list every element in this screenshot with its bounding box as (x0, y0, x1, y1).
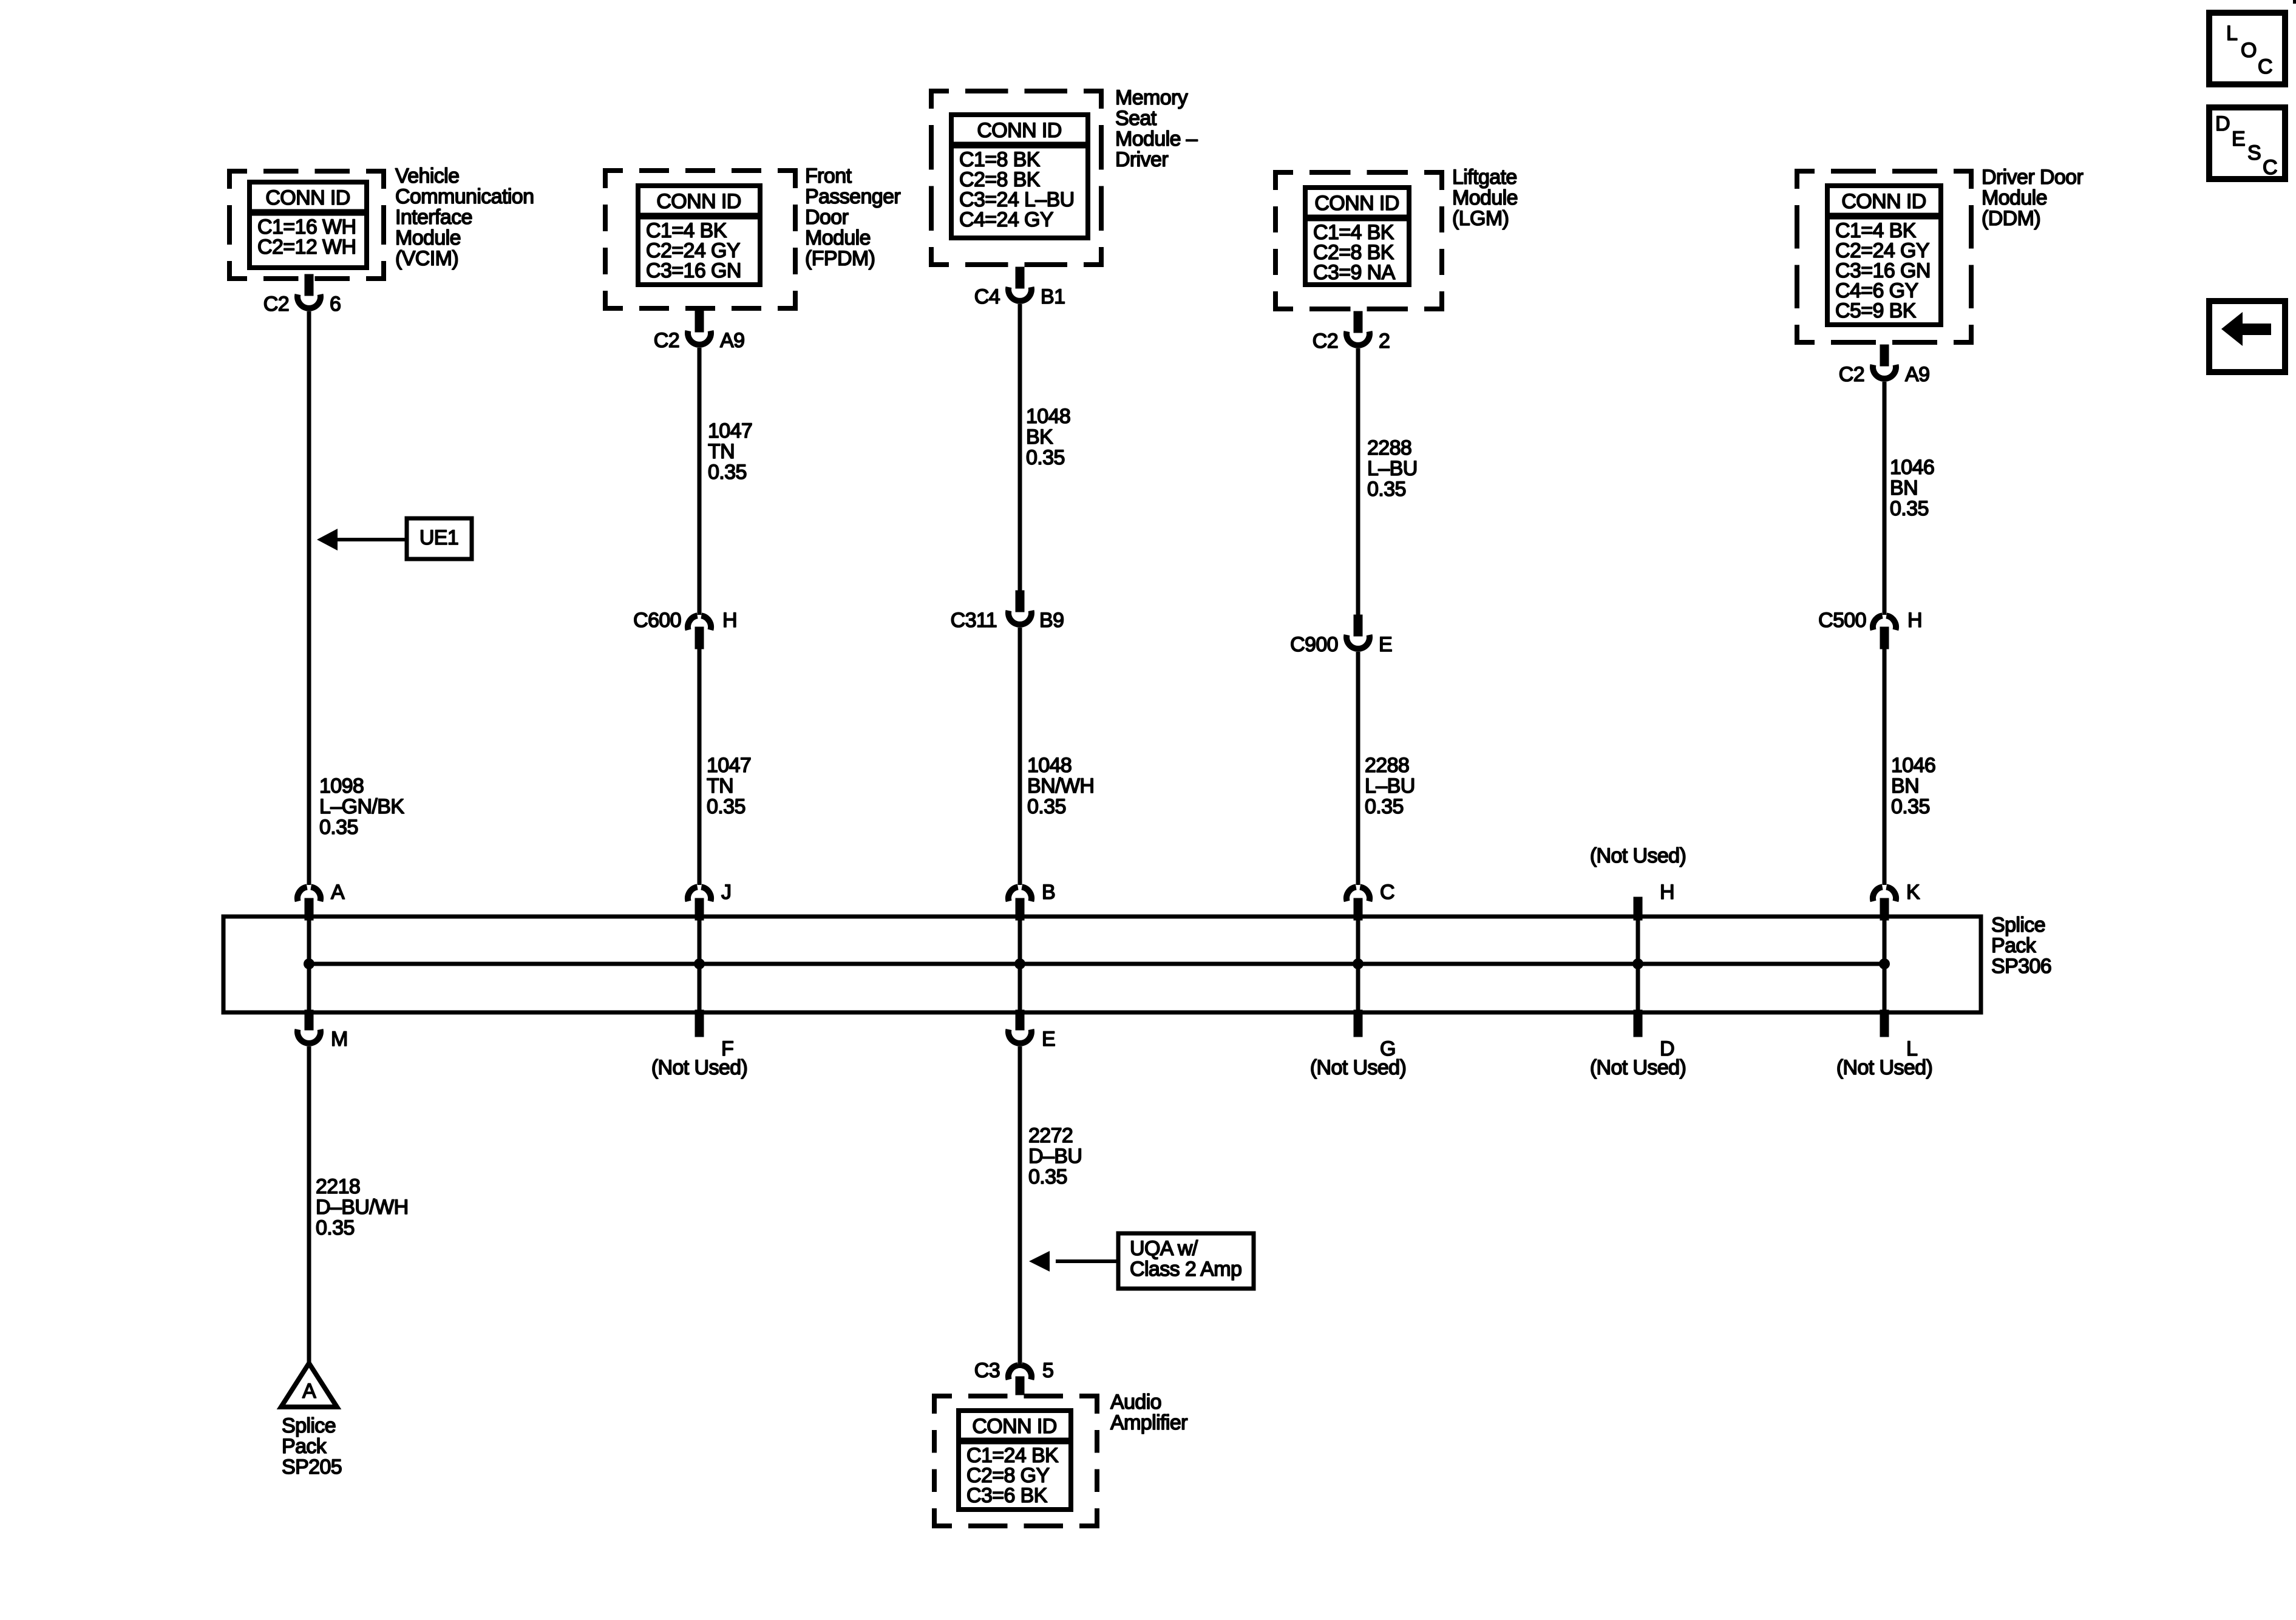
svg-text:J: J (721, 881, 731, 904)
junction node H on bus (1632, 958, 1643, 969)
in-line connector C600 pin H (633, 609, 737, 649)
svg-text:(Not Used): (Not Used) (651, 1056, 747, 1079)
svg-text:L: L (2226, 22, 2237, 45)
callout UQA w/ Class 2 Amp box with arrow (1029, 1233, 1254, 1289)
svg-text:A9: A9 (1905, 363, 1929, 386)
svg-text:CONN ID: CONN ID (656, 190, 741, 213)
LOC reference box (2209, 13, 2285, 84)
page corner mark (2293, 0, 2296, 4)
svg-text:H: H (1907, 609, 1922, 632)
connector C3 pin 5 (Audio Amplifier) (974, 1359, 1054, 1395)
wire 2272 from pin E to audio amplifier (1018, 1046, 1022, 1368)
module Audio Amplifier dashed box (932, 1394, 1099, 1528)
module Memory Seat CONN ID table (951, 115, 1088, 238)
svg-text:C: C (2258, 55, 2272, 78)
splice pack bottom pin F (695, 1010, 733, 1060)
svg-text:C900: C900 (1290, 633, 1338, 656)
back-arrow navigation box (2209, 301, 2285, 372)
svg-text:E: E (1042, 1028, 1055, 1051)
svg-text:CONN ID: CONN ID (977, 119, 1061, 142)
svg-text:CONN ID: CONN ID (972, 1415, 1056, 1438)
svg-text:2: 2 (1379, 330, 1390, 353)
svg-text:B1: B1 (1041, 285, 1065, 308)
junction node A on bus (304, 958, 314, 969)
svg-text:(Not Used): (Not Used) (1590, 1056, 1686, 1079)
svg-text:H: H (722, 609, 737, 632)
wire 2218 from pin M to splice pack SP205 (307, 1046, 311, 1364)
svg-text:M: M (331, 1028, 348, 1051)
svg-text:K: K (1906, 881, 1920, 904)
svg-text:C311: C311 (951, 609, 997, 632)
svg-text:C500: C500 (1818, 609, 1866, 632)
splice pack internal bus (309, 962, 1884, 966)
splice pack bottom pin G (1354, 1010, 1396, 1060)
splice pack bottom pin M (297, 1010, 348, 1051)
svg-text:O: O (2241, 39, 2257, 62)
module Audio Amplifier CONN ID table (959, 1411, 1071, 1510)
svg-text:B: B (1042, 881, 1055, 904)
svg-text:LiftgateModule(LGM): LiftgateModule(LGM) (1452, 166, 1518, 230)
module VCIM CONN ID table (250, 182, 367, 268)
svg-text:C2: C2 (1313, 330, 1338, 353)
splice pack top pin C (1347, 881, 1394, 920)
connector C2 pin A9 (FPDM) (654, 311, 745, 352)
splice pack top pin K (1873, 881, 1920, 920)
wire 1046 from C500 to splice pack pin K (1883, 649, 1887, 885)
svg-text:C2: C2 (263, 293, 289, 316)
wire 1047 from FPDM to C600 (698, 348, 702, 615)
svg-text:C3: C3 (974, 1359, 1000, 1382)
junction node J on bus (694, 958, 705, 969)
svg-text:E: E (2232, 127, 2245, 151)
module LGM CONN ID table (1305, 188, 1409, 285)
splice pack bottom pin L (1880, 1010, 1917, 1060)
in-line connector C900 pin E (1290, 615, 1392, 656)
svg-text:(Not Used): (Not Used) (1590, 844, 1686, 867)
svg-text:A: A (302, 1380, 316, 1403)
splice pack SP205 triangle symbol A (281, 1363, 337, 1407)
svg-text:S: S (2247, 141, 2261, 164)
svg-text:UE1: UE1 (419, 526, 458, 549)
svg-text:C1=24 BKC2=8 GYC3=6 BK: C1=24 BKC2=8 GYC3=6 BK (966, 1444, 1059, 1507)
connector C2 pin 2 (LGM) (1313, 311, 1390, 353)
svg-text:C2: C2 (1839, 363, 1864, 386)
junction node K on bus (1879, 958, 1890, 969)
module Memory Seat dashed box (929, 89, 1104, 267)
wire 2288 from LGM to C900 (1356, 348, 1360, 615)
splice pack top pin B (1008, 881, 1055, 920)
svg-text:H: H (1660, 881, 1674, 904)
svg-text:C600: C600 (633, 609, 681, 632)
splice pack bottom pin D (1634, 1010, 1674, 1060)
wire 1047 from C600 to splice pack pin J (698, 649, 702, 885)
callout UE1 box with arrow (317, 518, 472, 559)
splice pack bottom pin E (1008, 1010, 1055, 1051)
in-line connector C500 pin H (1818, 609, 1922, 649)
svg-text:A: A (331, 881, 345, 904)
module DDM CONN ID table (1827, 186, 1941, 325)
splice pack top pin A (297, 881, 345, 920)
svg-text:D: D (2215, 112, 2230, 135)
svg-text:E: E (1379, 633, 1392, 656)
wire 1048 from C311 to splice pack pin B (1018, 628, 1022, 885)
module LGM dashed box (1273, 170, 1444, 311)
svg-text:C: C (2263, 156, 2277, 179)
connector C2 pin 6 (VCIM) (263, 274, 341, 316)
wire 2288 from C900 to splice pack pin C (1356, 652, 1360, 885)
wire 1046 from DDM to C500 (1883, 382, 1887, 615)
svg-text:C1=4 BKC2=8 BKC3=9 NA: C1=4 BKC2=8 BKC3=9 NA (1313, 221, 1396, 284)
module DDM dashed box (1795, 169, 1974, 345)
svg-text:(Not Used): (Not Used) (1310, 1056, 1406, 1079)
svg-text:(Not Used): (Not Used) (1836, 1056, 1932, 1079)
svg-text:5: 5 (1042, 1359, 1053, 1382)
svg-text:6: 6 (330, 293, 341, 316)
junction node B on bus (1014, 958, 1025, 969)
wire 1048 from Memory Seat to C311 (1018, 304, 1022, 591)
wire 1098 from VCIM to splice pack pin A (307, 311, 311, 885)
svg-text:A9: A9 (720, 329, 744, 352)
svg-text:C2: C2 (654, 329, 679, 352)
connector C4 pin B1 (Memory Seat) (974, 267, 1065, 308)
module FPDM dashed box (603, 168, 798, 311)
splice pack SP306 box (223, 917, 1981, 1012)
module FPDM CONN ID table (638, 186, 760, 285)
svg-text:CONN ID: CONN ID (1841, 190, 1926, 213)
svg-text:CONN ID: CONN ID (265, 186, 350, 209)
junction node C on bus (1353, 958, 1364, 969)
connector C2 pin A9 (DDM) (1839, 345, 1930, 386)
DESC reference box (2209, 107, 2285, 179)
in-line connector C311 pin B9 (951, 591, 1064, 632)
splice pack top pin H (1634, 881, 1674, 920)
module VCIM dashed box (227, 169, 386, 281)
svg-text:C: C (1380, 881, 1394, 904)
svg-text:C1=16 WHC2=12 WH: C1=16 WHC2=12 WH (257, 215, 356, 259)
svg-text:B9: B9 (1039, 609, 1064, 632)
svg-text:C4: C4 (974, 285, 1000, 308)
splice pack top pin J (688, 881, 731, 920)
svg-text:CONN ID: CONN ID (1314, 192, 1399, 215)
